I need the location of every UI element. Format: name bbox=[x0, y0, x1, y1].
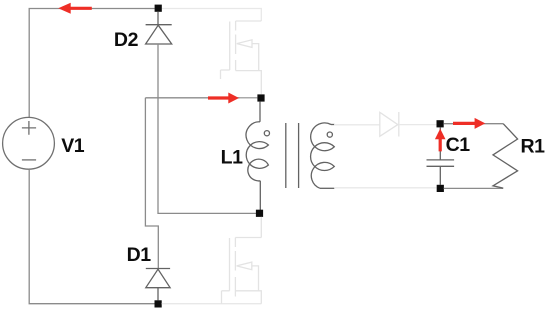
wire gray secondary top to output diode bbox=[334, 124, 380, 126]
junction node (output bottom) bbox=[437, 185, 444, 192]
wire gray segment before junction bbox=[240, 97, 258, 99]
junction node (primary bottom) bbox=[256, 210, 263, 217]
wire gray bottom rail to bottom MOSFET source bbox=[162, 303, 262, 305]
output diode (grayed out) bbox=[380, 112, 399, 137]
voltage source V1 bbox=[3, 117, 55, 169]
junction node (output top) bbox=[437, 120, 444, 127]
inductor L1 primary winding bbox=[246, 101, 269, 210]
red current arrow (into primary top node, pointing right) bbox=[208, 93, 239, 104]
wire D2 anode down to lower primary node bbox=[158, 44, 256, 213]
junction node (top rail / D2 cathode) bbox=[155, 5, 162, 12]
svg-text:C1: C1 bbox=[446, 134, 471, 156]
red current arrow (through C1, pointing up) bbox=[435, 129, 446, 152]
wire upper primary horizontal bbox=[145, 97, 257, 99]
diode D1 bbox=[146, 269, 170, 301]
svg-text:D2: D2 bbox=[114, 29, 139, 51]
wire V1 bottom to bottom rail bbox=[29, 169, 154, 304]
red current arrow (to load, pointing right) bbox=[453, 118, 485, 129]
svg-text:L1: L1 bbox=[221, 147, 244, 169]
wire top rail (left, dark) bbox=[29, 9, 154, 118]
wire gray output diode cathode to C1 top node bbox=[399, 124, 437, 126]
wire gray top rail to top MOSFET drain bbox=[162, 9, 262, 22]
wire output top node to R1 bbox=[444, 123, 504, 125]
top MOSFET (grayed out) bbox=[221, 21, 262, 94]
bottom MOSFET (grayed out) bbox=[222, 217, 262, 304]
capacitor C1 bbox=[427, 127, 455, 184]
wire output bottom node to R1 bottom bbox=[444, 187, 504, 189]
junction node (primary top) bbox=[257, 94, 264, 101]
red current arrow (top rail, pointing left) bbox=[58, 3, 92, 14]
svg-text:D1: D1 bbox=[127, 244, 152, 266]
wire gray secondary bottom to C1 bottom node bbox=[334, 187, 437, 189]
wire jog from D1 up to upper primary wire bbox=[145, 98, 158, 269]
junction node (bottom rail / D1 anode) bbox=[155, 300, 162, 307]
transformer core bbox=[286, 123, 299, 188]
L1 secondary winding bbox=[311, 123, 335, 188]
svg-text:V1: V1 bbox=[61, 135, 85, 157]
svg-text:R1: R1 bbox=[521, 135, 546, 157]
diode D2 bbox=[146, 12, 172, 44]
resistor R1 bbox=[493, 124, 518, 188]
